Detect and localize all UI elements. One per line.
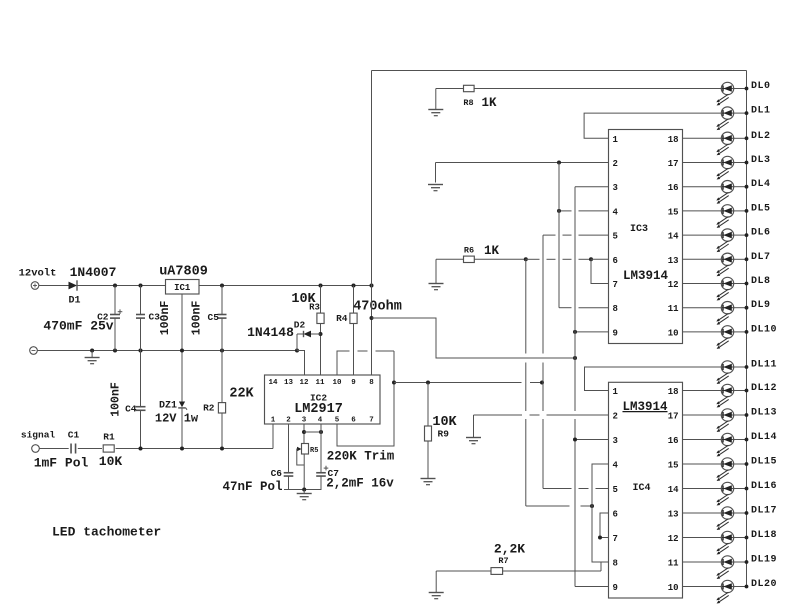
svg-text:100nF: 100nF (191, 301, 204, 336)
svg-text:C5: C5 (208, 312, 220, 323)
svg-text:9: 9 (613, 328, 618, 338)
svg-text:D1: D1 (68, 296, 80, 307)
svg-text:12: 12 (299, 379, 309, 387)
svg-text:LM2917: LM2917 (294, 402, 343, 417)
svg-text:R1: R1 (103, 432, 115, 443)
svg-text:LM3914: LM3914 (623, 269, 669, 283)
svg-text:15: 15 (668, 207, 679, 217)
svg-text:1: 1 (271, 417, 276, 425)
svg-text:DL20: DL20 (751, 579, 777, 590)
svg-text:10: 10 (332, 379, 342, 387)
svg-text:4: 4 (613, 461, 619, 471)
svg-text:DL13: DL13 (751, 408, 777, 419)
svg-text:1: 1 (613, 387, 619, 397)
svg-text:12: 12 (668, 280, 679, 290)
svg-text:13: 13 (668, 256, 679, 266)
svg-text:5: 5 (613, 232, 618, 242)
svg-text:D2: D2 (294, 320, 306, 331)
svg-text:7: 7 (613, 280, 618, 290)
svg-text:12volt: 12volt (19, 268, 57, 280)
svg-text:DZ1: DZ1 (159, 401, 177, 412)
svg-text:DL8: DL8 (751, 276, 771, 287)
svg-text:220K Trim: 220K Trim (327, 450, 395, 464)
svg-text:3: 3 (302, 417, 307, 425)
svg-text:DL2: DL2 (751, 131, 771, 142)
svg-text:100nF: 100nF (110, 382, 123, 417)
svg-text:5: 5 (335, 417, 340, 425)
svg-text:DL16: DL16 (751, 481, 777, 492)
svg-text:IC3: IC3 (630, 224, 648, 235)
svg-text:R3: R3 (309, 303, 320, 313)
svg-text:1mF Pol: 1mF Pol (34, 456, 89, 471)
svg-text:5: 5 (613, 485, 618, 495)
svg-text:11: 11 (668, 559, 679, 569)
svg-text:DL18: DL18 (751, 530, 777, 541)
svg-text:uA7809: uA7809 (159, 265, 208, 280)
svg-text:R4: R4 (336, 313, 348, 324)
svg-text:2: 2 (286, 417, 291, 425)
svg-text:DL10: DL10 (751, 324, 777, 335)
svg-text:12V 1w: 12V 1w (155, 412, 199, 426)
svg-text:DL9: DL9 (751, 300, 771, 311)
svg-text:13: 13 (284, 379, 294, 387)
svg-text:R6: R6 (464, 246, 474, 256)
svg-text:10K: 10K (99, 454, 123, 469)
svg-text:8: 8 (613, 559, 618, 569)
svg-text:15: 15 (668, 461, 679, 471)
svg-text:DL11: DL11 (751, 360, 777, 371)
svg-text:DL1: DL1 (751, 106, 771, 117)
svg-text:LM3914: LM3914 (622, 400, 668, 414)
svg-text:470mF 25v: 470mF 25v (43, 319, 113, 334)
svg-text:14: 14 (668, 485, 679, 495)
svg-text:14: 14 (668, 232, 679, 242)
svg-text:4: 4 (613, 207, 619, 217)
svg-text:14: 14 (268, 379, 278, 387)
svg-text:2,2mF 16v: 2,2mF 16v (326, 477, 394, 491)
svg-text:3: 3 (613, 436, 618, 446)
svg-text:7: 7 (613, 534, 618, 544)
svg-text:DL14: DL14 (751, 432, 777, 443)
svg-text:2: 2 (613, 159, 618, 169)
svg-text:C4: C4 (125, 404, 137, 415)
svg-text:22K: 22K (229, 387, 254, 402)
svg-text:13: 13 (668, 510, 679, 520)
svg-text:DL6: DL6 (751, 228, 771, 239)
svg-text:16: 16 (668, 436, 679, 446)
svg-text:R8: R8 (463, 98, 473, 108)
svg-text:R7: R7 (498, 556, 508, 566)
svg-text:6: 6 (613, 510, 618, 520)
svg-text:17: 17 (668, 159, 679, 169)
svg-text:1N4007: 1N4007 (70, 265, 117, 280)
svg-text:LED tachometer: LED tachometer (52, 525, 161, 540)
svg-text:1K: 1K (484, 244, 500, 258)
svg-text:C6: C6 (271, 468, 283, 479)
svg-text:IC1: IC1 (174, 283, 191, 293)
svg-text:1N4148: 1N4148 (247, 325, 294, 340)
svg-text:6: 6 (613, 256, 618, 266)
svg-text:6: 6 (351, 417, 356, 425)
svg-text:DL5: DL5 (751, 203, 771, 214)
svg-text:R5: R5 (310, 447, 318, 455)
svg-text:signal: signal (21, 430, 56, 441)
svg-text:18: 18 (668, 387, 679, 397)
svg-text:10: 10 (668, 583, 679, 593)
svg-text:DL12: DL12 (751, 383, 777, 394)
svg-text:DL0: DL0 (751, 81, 771, 92)
svg-text:R2: R2 (203, 403, 215, 414)
svg-text:2: 2 (613, 412, 618, 422)
svg-text:100nF: 100nF (159, 301, 172, 336)
svg-text:10: 10 (668, 328, 679, 338)
svg-text:IC4: IC4 (632, 483, 650, 494)
svg-text:DL3: DL3 (751, 155, 771, 166)
svg-text:8: 8 (369, 379, 374, 387)
svg-text:9: 9 (613, 583, 618, 593)
svg-text:C1: C1 (68, 430, 80, 441)
svg-text:DL4: DL4 (751, 179, 771, 190)
svg-text:DL19: DL19 (751, 555, 777, 566)
svg-text:DL15: DL15 (751, 457, 777, 468)
svg-text:11: 11 (315, 379, 325, 387)
svg-text:7: 7 (369, 417, 374, 425)
svg-text:DL17: DL17 (751, 506, 777, 517)
svg-text:4: 4 (318, 417, 323, 425)
svg-text:R9: R9 (438, 429, 450, 440)
svg-text:8: 8 (613, 304, 618, 314)
svg-text:470ohm: 470ohm (353, 300, 402, 315)
svg-text:DL7: DL7 (751, 252, 771, 263)
svg-text:9: 9 (351, 379, 356, 387)
svg-text:47nF Pol: 47nF Pol (222, 480, 282, 494)
svg-text:16: 16 (668, 183, 679, 193)
svg-text:12: 12 (668, 534, 679, 544)
svg-text:18: 18 (668, 135, 679, 145)
svg-text:3: 3 (613, 183, 618, 193)
svg-text:1K: 1K (482, 96, 498, 110)
svg-text:11: 11 (668, 304, 679, 314)
svg-text:17: 17 (668, 412, 679, 422)
svg-text:1: 1 (613, 135, 619, 145)
svg-text:2,2K: 2,2K (494, 542, 525, 557)
